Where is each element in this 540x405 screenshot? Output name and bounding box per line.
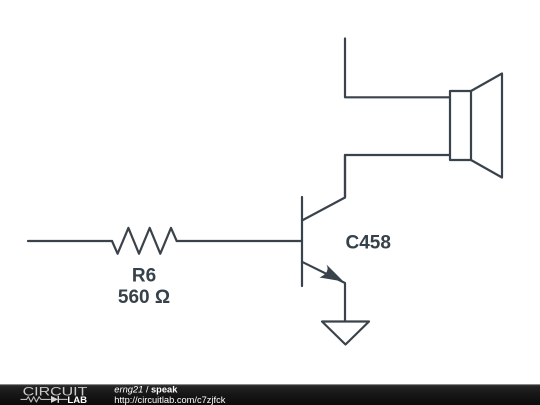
wire collector to speaker: [345, 155, 450, 198]
wire base left: [28, 240, 112, 242]
wire base right: [177, 240, 302, 242]
transistor Q1 C458: [302, 155, 345, 322]
resistor R6: [112, 228, 177, 254]
wire top stub to speaker: [345, 39, 450, 98]
footer text: [114, 385, 225, 405]
CircuitLab logo: [21, 385, 89, 405]
svg-text:erng21 / speak: erng21 / speak: [114, 385, 178, 395]
svg-text:C458: C458: [346, 232, 391, 253]
footer bar: [0, 384, 540, 405]
ground: [322, 322, 369, 345]
svg-text:http://circuitlab.com/c7zjfck: http://circuitlab.com/c7zjfck: [114, 395, 225, 405]
svg-text:R6: R6: [132, 266, 156, 287]
svg-text:560 Ω: 560 Ω: [118, 287, 170, 308]
svg-text:LAB: LAB: [67, 395, 87, 405]
speaker SPK1: [450, 74, 502, 178]
